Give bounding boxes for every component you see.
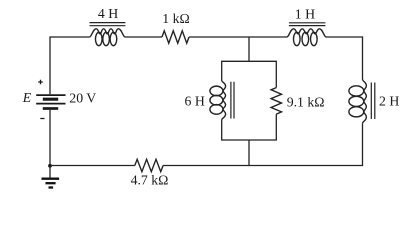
wire middle stub from top rail node xyxy=(248,37,250,61)
battery plate long 2 xyxy=(36,103,65,105)
ground bar 3 xyxy=(49,186,54,188)
wire top rail between R1 and node to parallel branch xyxy=(189,36,287,38)
wire top rail right segment + right branch upper corner xyxy=(326,37,363,80)
inductor L1 4 H coil xyxy=(90,29,125,37)
svg-text:4 H: 4 H xyxy=(98,6,118,21)
inductor L3 6 H coil xyxy=(222,81,226,120)
wire top rail between L1 and R1 xyxy=(125,36,162,38)
plus sign xyxy=(38,80,43,85)
wire bottom rail left segment xyxy=(50,165,135,167)
svg-text:6 H: 6 H xyxy=(185,94,205,109)
svg-text:E: E xyxy=(22,90,32,105)
battery plate short thick 2 xyxy=(43,107,58,110)
svg-text:9.1 kΩ: 9.1 kΩ xyxy=(287,94,325,109)
wire bottom rail right segment + right branch lower corner xyxy=(163,123,362,165)
resistor R3 4.7 kOhm zigzag xyxy=(135,159,163,171)
svg-text:1 H: 1 H xyxy=(295,7,315,22)
svg-text:20 V: 20 V xyxy=(69,90,96,105)
svg-text:1 kΩ: 1 kΩ xyxy=(162,11,190,26)
inductor L2 1 H coil xyxy=(287,29,326,37)
resistor R2 9.1 kOhm zigzag xyxy=(271,88,281,115)
inductor L1 core lines xyxy=(90,23,126,26)
resistor R1 1 kOhm zigzag xyxy=(162,31,189,43)
inductor L2 core lines xyxy=(289,23,326,26)
svg-text:4.7 kΩ: 4.7 kΩ xyxy=(131,173,169,188)
ground bar 1 xyxy=(42,178,60,180)
svg-text:2 H: 2 H xyxy=(379,94,399,109)
battery plate long 1 xyxy=(36,94,65,96)
junction dot at battery/bottom-rail node xyxy=(48,164,52,168)
wire top rail left segment + battery top lead corner xyxy=(50,37,90,94)
ground bar 2 xyxy=(46,182,56,184)
wire parallel block top edge + side uppers xyxy=(222,61,277,87)
minus sign xyxy=(40,118,44,120)
battery E bottom lead / ground stem xyxy=(49,110,51,178)
battery plate short thick 1 xyxy=(43,98,58,101)
wire middle stub to bottom rail xyxy=(248,140,250,166)
inductor L4 2 H coil xyxy=(363,80,367,124)
inductor L4 core lines xyxy=(371,83,375,120)
inductor L3 core lines xyxy=(231,82,234,119)
wire parallel block bottom edge + side lowers xyxy=(222,114,277,140)
